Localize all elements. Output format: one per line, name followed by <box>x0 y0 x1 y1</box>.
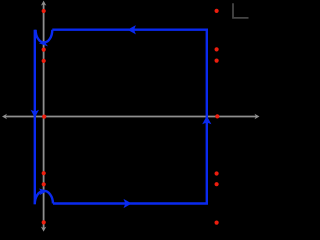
arrow on top edge (pointing left) <box>129 26 135 33</box>
contour right edge + top edge + bottom edge (rectangle sides) <box>52 30 207 204</box>
pole dot on imaginary axis y=222.4 <box>42 220 46 224</box>
contour bottom semicircular detour (arch over pole) <box>35 191 53 204</box>
pole dot right column on real axis <box>215 114 219 118</box>
arrow on right edge (pointing up) <box>203 117 210 123</box>
imaginary axis (vertical) <box>43 4 45 229</box>
pole dot on imaginary axis y=173.2 <box>42 171 46 175</box>
pole dot right column y=49.4 <box>215 47 219 51</box>
pole dot on imaginary axis y=60.9 <box>42 59 46 63</box>
arrow on bottom edge (pointing right) <box>125 200 131 207</box>
contour left edge <box>34 30 36 204</box>
pole dot right column y=10.9 <box>215 9 219 13</box>
real axis (horizontal) <box>5 116 258 118</box>
real axis right arrowhead <box>255 114 260 119</box>
arrow on top detour (pointing left along arc bottom) <box>40 41 46 45</box>
imaginary axis bottom arrowhead <box>41 227 46 232</box>
pole dot right column y=222.6 <box>215 221 219 225</box>
pole dot on imaginary axis y=49.6 <box>42 48 46 52</box>
arrow on bottom detour (pointing right along arch top) <box>40 189 46 194</box>
real axis left arrowhead <box>2 114 7 119</box>
pole dot at origin <box>42 115 46 119</box>
pole dot right column y=60.6 <box>215 59 219 63</box>
arrow on left edge (pointing down) <box>32 111 38 117</box>
pole dot right column y=173.5 <box>215 171 219 175</box>
label L (contour name, top right) <box>233 3 249 18</box>
pole dot on imaginary axis y=184.3 <box>42 182 46 186</box>
pole dot right column y=184.2 <box>215 182 219 186</box>
pole dot on imaginary axis y=11 <box>42 9 46 13</box>
imaginary axis top arrowhead <box>41 1 46 6</box>
contour top semicircular detour (U below top edge around pole) <box>36 30 53 43</box>
